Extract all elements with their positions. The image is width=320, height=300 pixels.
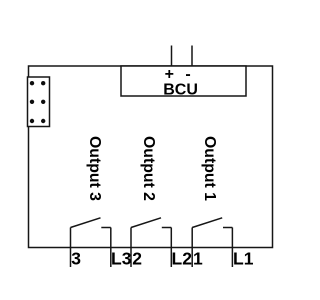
svg-text:L1: L1	[233, 249, 254, 269]
svg-text:L3: L3	[111, 249, 132, 269]
switch S3 Output 3	[71, 218, 111, 267]
svg-text:Output 1: Output 1	[201, 136, 218, 201]
svg-text:+: +	[165, 66, 174, 83]
label Output 3	[86, 136, 103, 201]
svg-text:1: 1	[193, 249, 203, 269]
terminal 1	[193, 249, 203, 269]
enclosure outline	[29, 66, 273, 248]
terminal L1	[233, 249, 254, 269]
switch S2 Output 2	[131, 218, 171, 267]
terminal L2	[172, 249, 193, 269]
svg-text:Output 3: Output 3	[86, 136, 103, 201]
wire negative supply	[191, 46, 193, 67]
svg-text:L2: L2	[172, 249, 193, 269]
svg-text:-: -	[185, 66, 190, 83]
terminal 3	[71, 249, 81, 269]
svg-text:3: 3	[71, 249, 81, 269]
switch S1 Output 1	[192, 218, 232, 267]
terminal L3	[111, 249, 132, 269]
wire positive supply	[171, 46, 173, 67]
connector J1	[28, 77, 50, 127]
BCU U1	[121, 66, 246, 99]
label Output 2	[140, 136, 157, 201]
label Output 1	[201, 136, 218, 201]
svg-text:BCU: BCU	[163, 82, 198, 99]
svg-text:2: 2	[132, 249, 142, 269]
svg-text:Output 2: Output 2	[140, 136, 157, 201]
terminal 2	[132, 249, 142, 269]
